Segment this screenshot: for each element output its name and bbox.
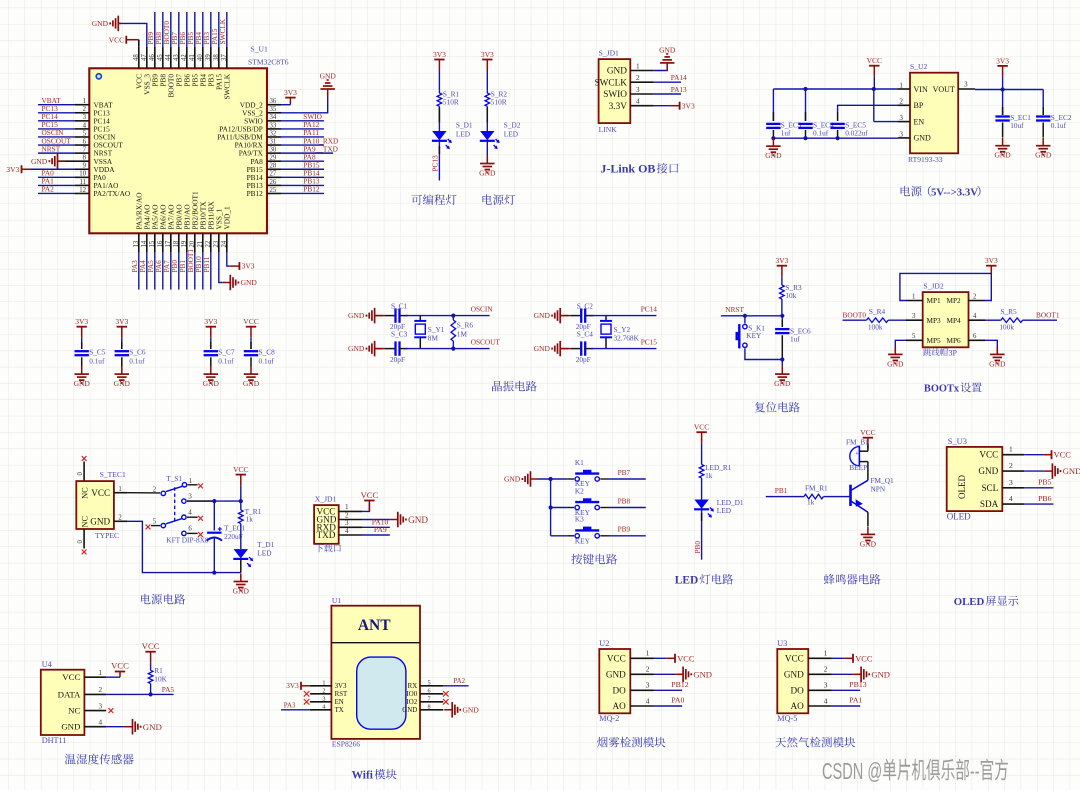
wire+net PA10 at X_JD1 pin 3 [362,518,390,528]
svg-text:SDA: SDA [980,499,999,509]
crystal S_Y1 8M [414,316,444,349]
svg-text:8: 8 [428,704,431,711]
net label PC13 (rotated) [431,155,440,172]
svg-text:K3: K3 [575,515,584,524]
svg-text:VCC: VCC [91,488,110,498]
svg-text:OLED: OLED [954,596,985,608]
svg-text:X_JD1: X_JD1 [315,495,337,504]
ground at U2 pin 2 [654,667,712,683]
wire VCC to EN [874,89,898,122]
svg-text:PA14: PA14 [671,73,687,82]
U1 pin 5 (OSCIN) [38,128,116,141]
S_TEC1 pin NC (top) [80,487,89,499]
U4 pin 4 (GND) [61,719,106,732]
ground at S_C2 left [534,308,569,324]
svg-text:GND: GND [92,19,109,28]
svg-text:NPN: NPN [871,485,886,494]
svg-text:0.1uf: 0.1uf [813,128,829,137]
button bus vertical [549,479,553,536]
svg-text:6: 6 [973,333,977,340]
svg-text:PB9: PB9 [618,525,631,534]
U1 pin 38 (PA15) [210,12,224,90]
svg-text:GND: GND [241,278,258,287]
svg-text:T_S1: T_S1 [166,474,182,483]
svg-text:46: 46 [149,54,156,61]
svg-text:3: 3 [83,114,87,121]
X_JD1 designator [315,495,337,504]
power 3V3 at S_JD1 pin 4 [654,101,695,110]
svg-text:4: 4 [646,696,650,705]
svg-text:0.022uf: 0.022uf [845,128,868,137]
X_JD1 pin 2 (GND) [317,511,363,524]
svg-text:LINK: LINK [599,125,618,134]
S_JD1 pin 3 (SWIO) [603,86,654,100]
S_TEC1 designator [100,470,126,479]
svg-text:VCC: VCC [979,450,998,460]
svg-text:3V3: 3V3 [335,683,347,690]
ground at U4 pin 4 [106,719,162,735]
svg-text:1uf: 1uf [790,335,800,344]
svg-text:DHT11: DHT11 [42,736,67,745]
U1 pin 36 (VDD_2) [240,98,281,109]
svg-text:MQ-2: MQ-2 [599,714,619,723]
svg-text:3: 3 [646,681,650,690]
svg-text:LED: LED [675,575,698,587]
U1 pin 11 (PA1/AO) [38,177,118,190]
svg-text:RT9193-33: RT9193-33 [908,155,943,164]
svg-text:1: 1 [912,293,915,300]
S_U2 pin (EN) [898,114,924,126]
U1 pin 13 (PA3/RX/AO) [130,192,144,289]
U1 pin 17 (PA7/AO) [162,205,176,290]
S_U2 pin (VIN) [898,81,928,93]
title 电源灯 [483,194,516,205]
key K1 [567,458,599,488]
power VCC above S_C8 [243,317,258,338]
net label BOOT0 + wire [843,311,867,321]
svg-text:KEY: KEY [746,331,762,340]
svg-text:OSCOUT: OSCOUT [471,338,501,347]
svg-text:7: 7 [83,147,87,154]
ground below S_C6 [114,366,131,388]
svg-text:CSDN @: CSDN @ [822,759,882,785]
svg-text:10k: 10k [785,291,796,300]
ground below S_C5 [74,366,91,388]
svg-text:IO2: IO2 [406,699,417,706]
U3 pin 4 (AO) [791,696,832,711]
wire+net PA0 at U2 pin 4 [654,696,685,706]
svg-text:BOOTx: BOOTx [924,384,960,395]
svg-text:33: 33 [270,122,277,129]
switch T_S1 contact 4 [182,510,203,521]
S_JD1 comment LINK [599,125,618,134]
svg-text:GND: GND [1035,151,1052,160]
ground at U1 pin 35 (VSS_2) [281,71,336,112]
U4 pin 1 (VCC) [62,669,106,682]
power VCC at S_U3 pin 1 [1024,450,1071,460]
svg-text:8M: 8M [428,334,439,343]
svg-text:29: 29 [270,155,277,162]
svg-text:11: 11 [79,179,86,186]
U1 module inner body [357,657,406,729]
svg-text:GND: GND [31,157,48,166]
wire VCC down to VIN rail [873,77,875,89]
svg-text:17: 17 [165,240,172,247]
ground below S_EC1 [994,138,1011,160]
svg-text:19: 19 [181,240,188,247]
svg-text:510R: 510R [443,98,459,107]
svg-text:S_R6: S_R6 [457,321,474,330]
connector S_JD1 body [599,59,631,123]
svg-text:7: 7 [428,696,431,703]
svg-text:PC14: PC14 [641,305,658,314]
capacitor S_EC5 0.022uf [830,112,868,138]
svg-text:NRST: NRST [42,144,61,153]
wire+net PA14 at S_JD1 pin 2 [654,73,687,82]
net label OSCIN [471,305,494,314]
LED S_D2 [480,121,521,150]
sensor U3 (MQ-5) body [777,649,808,713]
U2 pin 4 (AO) [613,696,654,711]
U1 pin 1 (VBAT) [38,96,113,109]
LED S_D1 [432,121,473,150]
svg-text:PA2: PA2 [42,185,55,194]
U1 pin 23 (VSS_1) [213,208,224,252]
svg-text:PA3: PA3 [284,702,296,709]
svg-text:PB5: PB5 [1038,478,1052,487]
svg-text:S_U1: S_U1 [251,45,269,54]
svg-text:3: 3 [99,702,103,710]
switch T_S1 arm 2-1 [166,486,182,491]
ground at X_JD1 pin 2 [362,512,428,528]
S_JD2 pins 3/4 (MP3 MP4) [906,313,985,325]
S_JD2 designator [923,282,943,291]
U1 pin 29 (PA8) [250,152,324,165]
U1 pin 33 (PA12/USB/DP) [219,120,324,133]
svg-text:GND: GND [534,344,551,353]
ground below S_D2 [479,156,496,178]
U1 pin 22 (PB11/RX) [202,201,216,290]
key S_K1 (reset button) [736,316,766,349]
resistor S_R1 510R [437,89,459,107]
svg-text:3V3: 3V3 [204,317,217,326]
svg-text:GND: GND [659,45,676,54]
U1 wifi pin 5 (RX) [408,680,444,691]
switch T_S1 dashed link [174,487,176,522]
U1 wifi pin 2 (RST) [310,688,348,699]
power VCC (TYPEC block) [233,465,248,486]
ground below reset [774,360,791,389]
svg-text:BP: BP [914,101,924,110]
wire 3V3 to S_R3 [781,277,783,284]
svg-text:DO: DO [613,685,627,695]
svg-text:PB12: PB12 [303,185,320,194]
svg-text:TX: TX [335,707,344,714]
S_TEC1 pin 2 (GND) [90,515,127,527]
svg-text:5: 5 [153,518,157,525]
switch comment KFT DIP-8X8 [166,535,209,544]
svg-text:PA5: PA5 [162,685,175,694]
svg-text:DO: DO [791,685,805,695]
svg-text:30: 30 [270,147,277,154]
svg-text:MP5: MP5 [927,336,942,345]
title LED灯电路 [675,574,733,587]
svg-text:3: 3 [964,80,968,88]
wire VCC to LED_R1 [701,443,703,464]
module U1 (ESP8266) body [331,606,420,739]
svg-text:J-Link OB: J-Link OB [600,162,655,176]
S_TEC1 comment TYPEC [95,531,119,540]
svg-text:28: 28 [270,163,277,170]
svg-text:18: 18 [173,240,180,247]
svg-text:VIN: VIN [914,85,928,94]
U3 pin 2 (GND) [784,665,832,680]
svg-text:GND: GND [978,466,998,476]
U1 pin 35 (VSS_2) [242,106,281,117]
capacitor S_C7 0.1uf [204,338,235,367]
svg-text:4: 4 [322,704,325,711]
svg-text:6: 6 [428,688,431,695]
svg-text:U4: U4 [42,660,52,669]
svg-text:16: 16 [157,240,164,247]
svg-text:S_C8: S_C8 [259,348,276,357]
svg-text:3V3: 3V3 [242,261,255,270]
svg-text:GND: GND [887,359,904,368]
svg-text:OLED: OLED [957,475,967,499]
svg-text:32: 32 [270,130,277,137]
key K2 [567,486,599,517]
svg-text:20pF: 20pF [390,355,405,364]
S_TEC1 pin NC (bottom) [80,516,89,528]
svg-text:47: 47 [141,54,148,61]
ground below S_EC2 [1035,138,1052,160]
svg-text:25: 25 [270,187,277,194]
svg-text:5: 5 [428,680,431,687]
svg-text:S_C3: S_C3 [391,329,408,338]
svg-text:S_R4: S_R4 [869,307,886,316]
svg-text:1: 1 [345,503,349,511]
svg-text:GND: GND [914,134,932,143]
resistor S_R4 100k [867,307,907,331]
svg-text:VCC: VCC [860,428,875,437]
svg-text:3: 3 [188,493,192,500]
switch T_S1 contact 3 [182,493,193,503]
ground at S_C3 left [348,341,383,357]
svg-text:4: 4 [1009,494,1013,503]
resistor S_R5 100k [985,307,1023,331]
wire NRST [721,314,785,318]
svg-text:LED: LED [456,130,470,139]
svg-text:44: 44 [165,54,172,61]
svg-text:S_D1: S_D1 [456,121,473,130]
wire VCC to R1 [150,663,152,671]
U1 pin 27 (PB14) [247,169,324,182]
svg-text:OLED: OLED [947,511,971,521]
power VCC at U4 pin 1 [106,661,129,678]
no-connect X at wifi pin 3 [304,699,310,705]
svg-text:MP1: MP1 [927,296,942,305]
LED T_D1 [233,540,274,567]
svg-text:VCC: VCC [607,653,626,663]
svg-text:PA0: PA0 [671,696,684,705]
svg-text:0: 0 [77,472,84,476]
svg-text:PB11: PB11 [202,256,211,272]
svg-text:SWIO: SWIO [603,90,627,100]
svg-text:1: 1 [636,62,640,70]
wire LED_R1 to LED_D1 [701,478,703,499]
wire T_R1 to T_D1 [240,524,242,550]
U2 comment MQ-2 [599,714,619,723]
S_U2 pin (BP) [898,98,924,110]
svg-text:S_C1: S_C1 [391,301,408,310]
svg-text:0.1uf: 0.1uf [1051,121,1067,130]
svg-text:5V-->3.3V: 5V-->3.3V [931,187,978,199]
svg-text:+: + [855,450,859,457]
ground at S_U3 pin 2 [1024,463,1080,479]
svg-text:S_TEC1: S_TEC1 [100,470,126,479]
title 烟雾检测模块 [597,737,665,748]
svg-text:NC: NC [80,516,89,528]
U1 pin 48 (VCC) [133,47,144,89]
svg-text:GND: GND [479,168,496,177]
capacitor S_EC6 1uf [775,316,811,362]
U3 pin 1 (VCC) [785,649,832,664]
svg-text:0.1uf: 0.1uf [129,357,145,366]
switch T_S1 contact 2 [153,487,166,496]
svg-text:3V3: 3V3 [481,50,494,59]
svg-text:27: 27 [270,171,277,178]
svg-text:24: 24 [221,240,228,247]
net label PC14 [641,305,658,314]
S_U2 comment RT9193-33 [908,155,943,164]
svg-text:1k: 1k [807,497,815,506]
svg-text:1: 1 [824,649,828,658]
svg-text:VDD_1: VDD_1 [223,206,232,229]
title 按键电路 [571,554,617,565]
svg-text:15: 15 [149,240,156,247]
svg-text:1: 1 [99,669,103,677]
svg-text:MP6: MP6 [947,336,962,345]
sensor U2 (MQ-2) body [599,649,630,713]
svg-text:0: 0 [77,540,84,544]
svg-text:S_JD2: S_JD2 [923,282,943,291]
crystal S_Y2 32.768K [600,316,640,349]
resistor S_R3 10k [780,283,802,300]
svg-text:37: 37 [221,54,228,61]
resistor T_R1 1k [239,507,262,524]
svg-text:21: 21 [197,241,204,248]
resistor LED_R1 1k [699,463,731,480]
svg-text:PA2: PA2 [453,678,465,685]
svg-text:PA9: PA9 [374,525,387,534]
ground at U1 pin 47 (VSS_3) [92,16,147,47]
svg-text:2: 2 [646,665,650,674]
U2 designator [599,639,609,648]
wire TYPEC VCC to switch [127,492,160,494]
svg-text:KEY: KEY [575,536,591,545]
svg-text:GND: GND [203,379,220,388]
MCU U1 comment STM32C8T6 [248,58,289,67]
svg-text:IO0: IO0 [406,691,417,698]
capacitor S_EC3 1uf [766,89,802,138]
svg-text:VCC: VCC [785,653,804,663]
U1 pin 8 (VSSA) [75,155,113,166]
svg-text:BOOT1: BOOT1 [1036,311,1060,320]
svg-text:BEEP: BEEP [849,463,867,472]
svg-text:3V3: 3V3 [284,88,297,97]
svg-text:LED: LED [257,549,271,558]
U1 pin 42 (PB6) [178,12,192,87]
svg-text:VCC: VCC [109,35,124,44]
power VCC at X_JD1 pin 1 [361,490,379,512]
svg-text:31: 31 [270,138,277,145]
U1 pin 12 (PA2/TX/AO) [38,185,130,198]
svg-text:PB0: PB0 [693,541,702,554]
wire PC14 node [591,315,656,317]
U1 wifi pin 8 (GND) [402,704,443,715]
svg-text:PB13: PB13 [849,680,866,689]
U3 comment MQ-5 [777,714,797,723]
svg-text:3V3: 3V3 [286,681,299,690]
U1 wifi designator [332,596,341,605]
U1 pin 3 (PC14) [38,112,110,125]
wire VCC to T_R1 [240,486,242,510]
wire+net PA9 at X_JD1 pin 4 [362,525,390,535]
svg-text:U3: U3 [777,639,787,648]
switch T_S1 contact 5 [146,518,166,529]
svg-text:100k: 100k [868,323,883,332]
wire+net PB6 at S_U3 pin 4 [1024,494,1053,504]
U1 pin 46 (PB9) [146,12,160,87]
svg-text:VCC: VCC [1054,451,1072,460]
svg-text:2: 2 [345,511,349,519]
capacitor T_EC1 220uF (polarized) [207,501,246,572]
svg-text:2: 2 [899,98,903,106]
X_JD1 pin 1 (VCC) [317,503,363,516]
power 3V3 above S_C5 [75,317,88,338]
wire LED_D1 down + net PB0 [693,509,702,559]
power 3V3 above S_C7 [204,317,217,338]
wire K2 to net [600,507,646,509]
capacitor S_C8 0.1uf [244,338,275,367]
title 温湿度传感器 [65,754,134,765]
power 3V3 (S_D1 chain) [433,50,446,71]
net label PC15 [641,338,658,347]
svg-text:2: 2 [636,74,640,82]
ground at S_JD1 pin 1 [654,45,676,71]
svg-text:3: 3 [912,313,916,320]
power VCC (LED block) [694,423,709,444]
ground at MP6 [989,346,1006,368]
U3 designator [777,639,787,648]
svg-text:SWCLK: SWCLK [218,18,227,44]
capacitor S_EC2 0.1uf [1036,90,1072,138]
svg-text:GND: GND [408,515,428,525]
svg-text:SCL: SCL [981,483,998,493]
wire+net PA3 at wifi pin 4 [281,702,310,709]
svg-text:S_C7: S_C7 [218,348,235,357]
svg-text:VCC: VCC [694,423,709,432]
MCU U1 designator S_U1 [251,45,269,54]
svg-text:AO: AO [791,701,805,711]
svg-text:34: 34 [270,114,277,121]
svg-text:MQ-5: MQ-5 [777,714,797,723]
U4 designator [42,660,52,669]
capacitor S_C5 0.1uf [75,338,106,367]
svg-text:1: 1 [322,680,325,687]
resistor FM_R1 1k [804,483,851,506]
wire+net PB13 at U3 pin 3 [832,680,867,690]
